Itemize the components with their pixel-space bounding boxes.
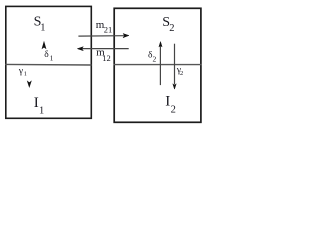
arrow gamma2 (down shaft in box 2) [174,44,176,85]
box patch 2 (right compartment S2/I2) [114,8,201,122]
label I2 [165,94,176,116]
arrow m12 (shaft) [82,48,129,50]
svg-text:1: 1 [24,70,27,77]
divider line patch 1 (S1 | I1) [5,63,91,66]
svg-text:12: 12 [102,53,111,63]
svg-text:1: 1 [40,22,45,33]
svg-text:2: 2 [180,70,183,77]
label m21 [96,19,113,35]
svg-text:δ: δ [44,50,49,60]
label S1 [34,15,46,34]
label S2 [162,15,174,34]
arrow delta2 (head, points up) [159,42,162,47]
label gamma1 [18,66,27,77]
arrow delta2 (up shaft in box 2) [159,46,161,85]
arrow gamma2 (head, points down) [173,84,176,89]
arrow m12 (head, points left into box 1) [77,47,83,51]
label gamma2 [176,65,183,77]
arrow m21 (shaft) [78,35,124,37]
label I1 [34,95,44,116]
arrowhead gamma1 (small down arrow in box 1) [28,81,32,87]
svg-text:γ: γ [18,66,23,76]
svg-text:2: 2 [169,23,174,34]
divider line patch 2 (S2 | I2) [114,64,202,66]
arrow m21 (head, points right into box 2) [123,34,129,38]
svg-text:2: 2 [153,54,157,63]
label m12 [96,46,111,63]
label delta1 [44,50,53,62]
box patch 1 (left compartment S1/I1) [6,6,92,118]
svg-text:I: I [165,94,170,110]
label delta2 [148,51,157,64]
svg-text:21: 21 [104,25,113,35]
svg-text:1: 1 [39,105,44,116]
svg-text:1: 1 [50,53,54,62]
arrowhead delta1 (small up arrow in box 1) [42,42,46,48]
svg-text:2: 2 [171,105,176,116]
